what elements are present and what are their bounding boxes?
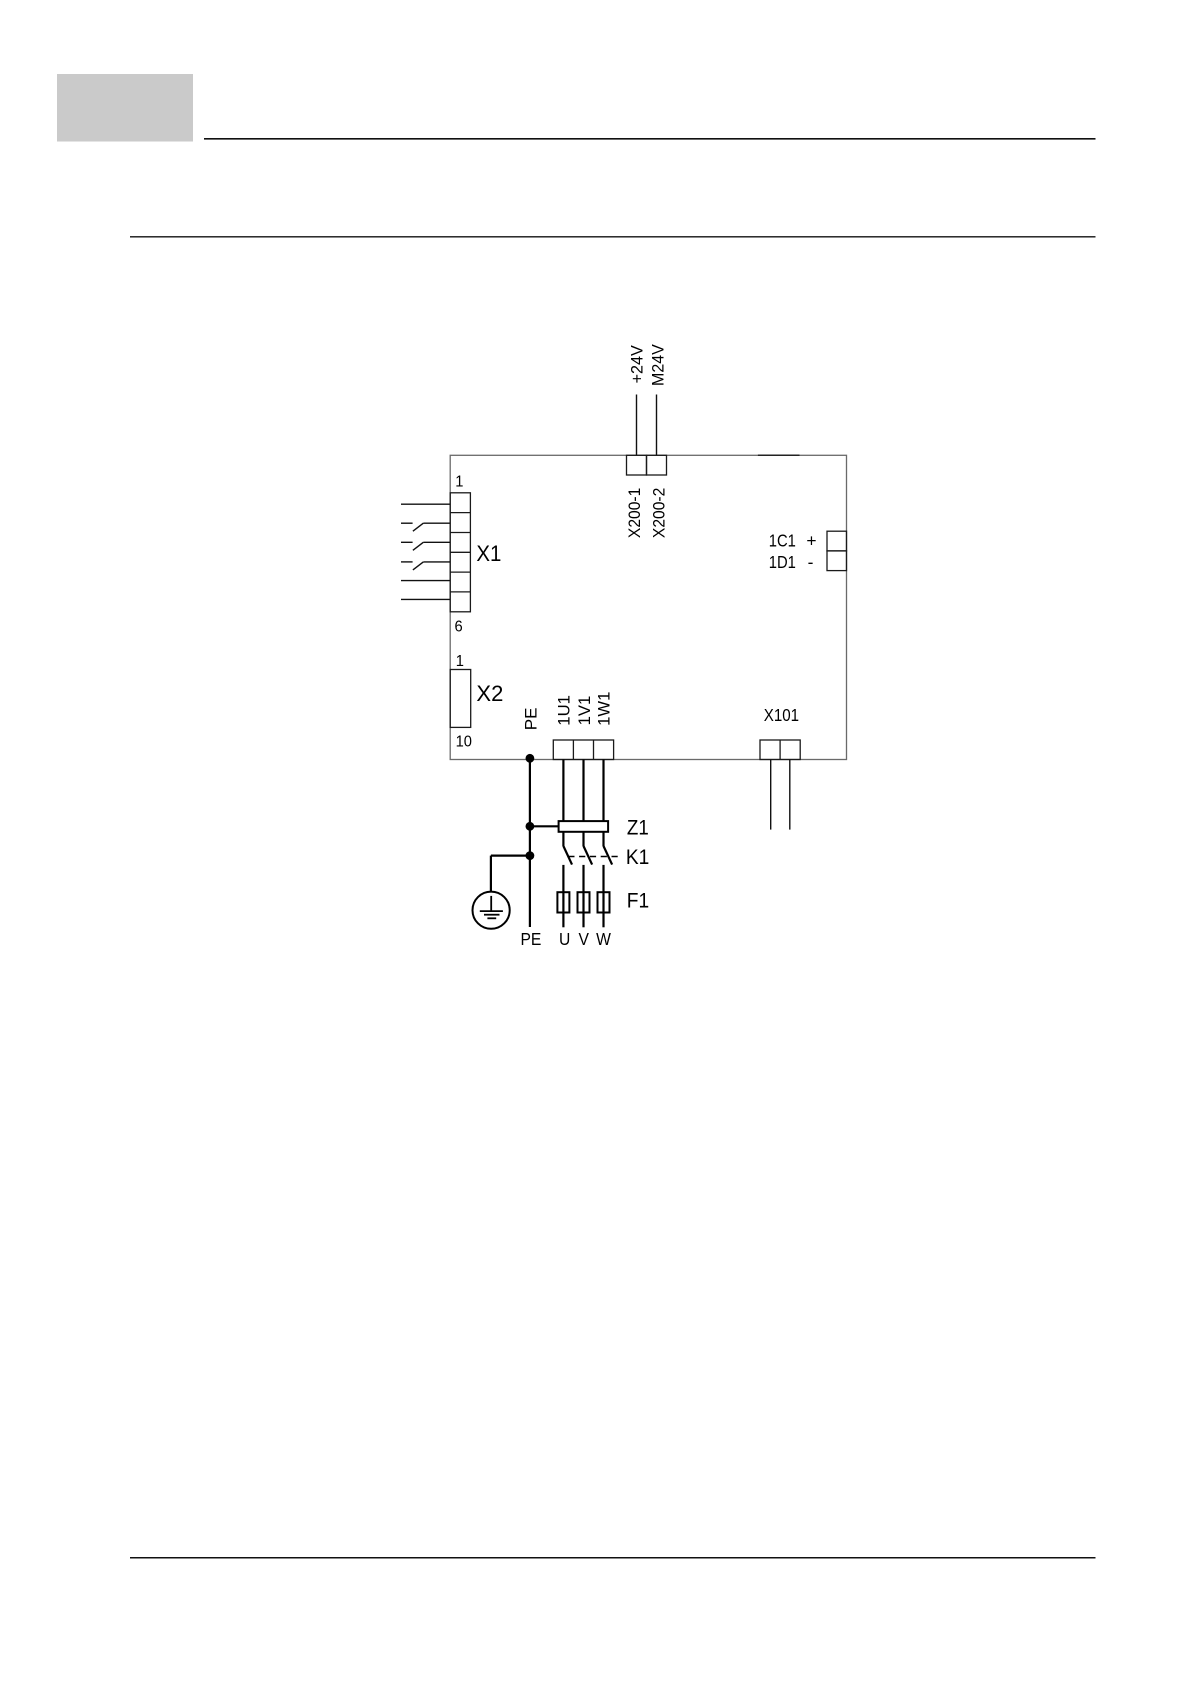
svg-text:-: - bbox=[808, 552, 814, 572]
svg-text:V: V bbox=[578, 929, 588, 949]
svg-text:W: W bbox=[596, 929, 611, 949]
svg-text:1U1: 1U1 bbox=[554, 695, 573, 726]
svg-text:10: 10 bbox=[456, 733, 472, 750]
svg-text:K1: K1 bbox=[626, 846, 649, 869]
svg-text:M24V: M24V bbox=[649, 344, 667, 386]
svg-text:X200-1: X200-1 bbox=[625, 488, 644, 538]
svg-text:X101: X101 bbox=[764, 705, 799, 726]
svg-text:1: 1 bbox=[455, 473, 463, 490]
svg-text:+: + bbox=[806, 530, 816, 550]
svg-text:1D1: 1D1 bbox=[769, 553, 796, 572]
svg-text:1: 1 bbox=[456, 653, 464, 670]
svg-text:Z1: Z1 bbox=[627, 816, 649, 839]
svg-text:6: 6 bbox=[455, 618, 463, 635]
svg-text:1V1: 1V1 bbox=[575, 696, 594, 726]
svg-text:PE: PE bbox=[522, 708, 541, 731]
svg-text:+24V: +24V bbox=[628, 345, 646, 383]
svg-text:1C1: 1C1 bbox=[769, 531, 796, 550]
svg-text:U: U bbox=[559, 929, 570, 949]
svg-text:PE: PE bbox=[520, 929, 541, 949]
svg-text:X200-2: X200-2 bbox=[650, 488, 669, 538]
svg-text:X1: X1 bbox=[476, 541, 501, 566]
svg-text:F1: F1 bbox=[627, 890, 649, 913]
svg-text:1W1: 1W1 bbox=[595, 692, 614, 726]
svg-text:X2: X2 bbox=[476, 681, 503, 706]
